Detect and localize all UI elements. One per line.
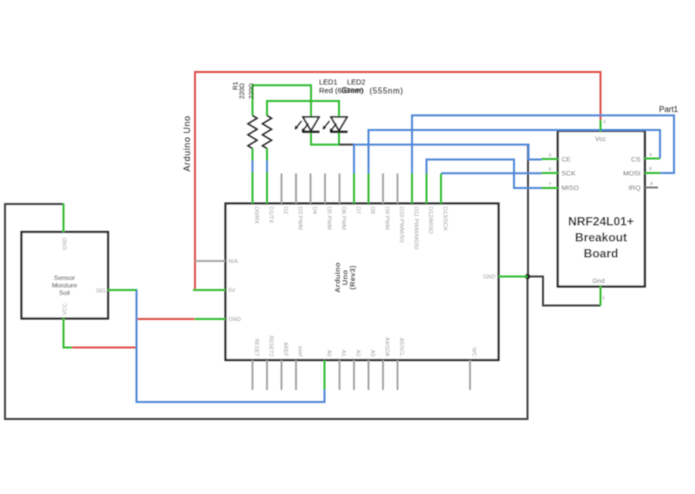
Arduino pin D2 (282, 174, 289, 215)
wire: R2 blue segment to D1 (266, 161, 268, 173)
wire: D0 pin stub green (252, 172, 254, 204)
resistor R2 220 ohm (262, 116, 271, 149)
svg-text:D13/SCK: D13/SCK (442, 207, 448, 232)
wire: D13 to NRF SCK (blue) (441, 172, 542, 174)
Arduino pin D12/MISO (427, 174, 434, 235)
svg-text:D0/RX: D0/RX (253, 207, 259, 224)
node: ground junction (525, 274, 530, 279)
wire: NRF SCK pin stub (542, 172, 559, 174)
svg-text:Breakout: Breakout (575, 231, 627, 245)
Arduino pin N/C (470, 347, 477, 390)
svg-text:D7: D7 (355, 207, 361, 215)
wire: sensor GND stub up (63, 204, 65, 233)
wire: D11 to NRF MOSI (blue) (412, 115, 674, 174)
wire: ground link junction to NRF Gnd (528, 277, 601, 306)
soil moisture sensor body outline (22, 232, 109, 319)
svg-text:4: 4 (649, 152, 652, 158)
svg-text:N/A: N/A (229, 259, 239, 265)
wire: blue sensor SIG to Arduino A0 (137, 289, 325, 402)
svg-text:D12/MISO: D12/MISO (427, 207, 433, 235)
svg-text:Green: Green (342, 86, 364, 95)
wire: red link to Arduino GND pin (137, 318, 195, 320)
svg-text:GND: GND (229, 317, 241, 323)
svg-text:A1: A1 (340, 350, 346, 357)
svg-text:RESET2: RESET2 (268, 336, 274, 357)
svg-text:7: 7 (549, 182, 552, 188)
svg-text:SCK: SCK (562, 170, 576, 177)
svg-text:Soil: Soil (59, 290, 71, 297)
wire: red sensor VCC link (71, 347, 137, 349)
svg-text:Vcc: Vcc (595, 136, 606, 143)
svg-text:VCC: VCC (63, 303, 69, 315)
Arduino pin A2 (354, 350, 361, 390)
Arduino pin A5/SCL (398, 338, 405, 390)
svg-text:GND: GND (63, 238, 69, 250)
wire: sensor VCC stub down (64, 318, 73, 348)
Arduino pin ioref (296, 346, 303, 390)
wire: Arduino 5V pin stub (193, 289, 226, 291)
svg-text:MISO: MISO (562, 185, 579, 192)
wire: R1 top lead to LED1 anode (253, 85, 312, 117)
NRF24L01+ breakout board body (568, 215, 634, 261)
svg-text:D6 PWM: D6 PWM (340, 207, 346, 231)
Arduino pin RESET (253, 339, 260, 390)
svg-text:D5 PWM: D5 PWM (326, 207, 332, 231)
svg-text:6: 6 (649, 166, 652, 172)
svg-text:(Rev3): (Rev3) (348, 265, 357, 290)
wire: R1 bottom lead green (252, 149, 254, 162)
wire: NRF MISO pin stub (542, 187, 559, 189)
svg-text:3: 3 (549, 153, 552, 159)
svg-text:D3 PWM: D3 PWM (297, 207, 303, 231)
wire: D12 to NRF MISO (blue) (427, 160, 542, 189)
wire: D7 to NRF CE (blue) (354, 145, 542, 174)
svg-text:220Ω: 220Ω (239, 83, 246, 99)
Arduino pin D3 PWM (296, 174, 303, 231)
wire: sensor SIG stub right (108, 289, 137, 291)
svg-text:CS: CS (631, 156, 641, 163)
Arduino pin RESET2 (267, 336, 274, 390)
svg-text:D8: D8 (369, 207, 375, 215)
wire: R2 bottom lead green (266, 149, 268, 162)
svg-text:D10 PWM/SS: D10 PWM/SS (398, 207, 404, 243)
svg-text:N/C: N/C (471, 347, 477, 356)
svg-text:8: 8 (650, 181, 653, 187)
wire: NRF IRQ pin stub (unconnected) (645, 187, 659, 189)
wire: D8 to NRF CS (blue) (369, 130, 661, 174)
svg-text:A3: A3 (369, 350, 375, 357)
Arduino pin D4 (311, 174, 318, 215)
wire: R2 top lead to LED2 anode (267, 101, 339, 117)
svg-text:A2: A2 (355, 350, 361, 357)
soil moisture sensor module (52, 275, 78, 297)
svg-text:D11 PWM/MOSI: D11 PWM/MOSI (413, 207, 419, 250)
wire: Arduino right GND pin stub to junction (499, 276, 528, 278)
wire: black riser from CE corner down to ground junction (527, 145, 529, 277)
wire: Arduino left GND pin stub (195, 318, 226, 320)
Arduino pin D9 PWM (383, 174, 390, 231)
Arduino pin D6 PWM (340, 174, 347, 231)
svg-text:IRQ: IRQ (628, 185, 640, 192)
Arduino pin A0 (326, 350, 332, 357)
Arduino pin D1/TX (268, 207, 274, 224)
wire: R1 blue segment to D0 (252, 161, 254, 173)
wire: black link LED2 cathode to D7 net (339, 144, 354, 146)
svg-text:(555nm): (555nm) (370, 86, 404, 95)
wire: LED1 cathode down (311, 132, 339, 145)
Arduino pin D11 PWM/MOSI (412, 174, 419, 250)
wire: NRF Gnd pin stub (600, 286, 602, 306)
svg-text:5: 5 (549, 167, 552, 173)
wire: D1 pin stub green (266, 172, 268, 204)
svg-text:A0: A0 (326, 350, 332, 357)
svg-text:Board: Board (584, 247, 619, 261)
Arduino pin D5 PWM (325, 174, 332, 231)
wire: red 5V net (Arduino 5V up, across top, down to NRF Vcc) (195, 72, 601, 290)
Arduino pin A4/SDA (383, 337, 390, 390)
Arduino pin D10 PWM/SS (398, 174, 405, 243)
svg-text:AREF: AREF (282, 342, 288, 357)
svg-text:D2: D2 (282, 207, 288, 215)
svg-text:MOSI: MOSI (623, 170, 640, 177)
Arduino pin A1 (340, 350, 347, 390)
svg-text:Gnd: Gnd (592, 278, 605, 285)
svg-text:GND: GND (483, 275, 495, 281)
svg-text:A4/SDA: A4/SDA (384, 337, 390, 357)
svg-text:5V: 5V (229, 288, 236, 294)
svg-text:Arduino Uno: Arduino Uno (182, 115, 192, 171)
svg-text:Sensor: Sensor (54, 275, 76, 282)
wire: NRF Vcc pin stub (600, 120, 602, 132)
svg-text:2: 2 (603, 119, 606, 125)
svg-text:D1/TX: D1/TX (268, 207, 274, 224)
LED LED1 (red 633nm) (295, 117, 320, 132)
svg-text:220Ω: 220Ω (249, 83, 256, 99)
LED LED2 (green 555nm) (323, 117, 348, 132)
wire: Arduino A0 pin stub (324, 360, 326, 390)
svg-text:1: 1 (602, 295, 605, 301)
Arduino pin D8 (369, 174, 376, 215)
wire: NRF CE pin stub (542, 158, 559, 160)
Arduino pin D0/RX (253, 207, 259, 224)
Arduino Uno (Rev3) body (333, 262, 357, 293)
svg-text:A5/SCL: A5/SCL (398, 338, 404, 357)
Arduino pin AREF (282, 342, 289, 390)
wire: LED2 cathode down (338, 132, 340, 145)
svg-text:D9 PWM: D9 PWM (384, 207, 390, 231)
wire: ground outer loop (sensor GND to bottom rail) (5, 204, 528, 419)
Arduino pin D13/SCK (441, 174, 448, 232)
svg-text:SIG: SIG (96, 288, 106, 294)
svg-text:ioref: ioref (297, 346, 303, 357)
svg-text:Part1: Part1 (659, 105, 679, 114)
Arduino pin N/A (left) (195, 259, 238, 265)
Arduino Uno body outline (226, 204, 499, 361)
svg-text:NRF24L01+: NRF24L01+ (568, 215, 634, 229)
NRF24L01+ breakout body outline (558, 131, 645, 287)
Arduino pin D7 (354, 174, 361, 215)
svg-text:Moisture: Moisture (52, 283, 78, 290)
svg-text:D4: D4 (311, 207, 317, 215)
Arduino pin A3 (369, 350, 376, 390)
wire: NRF CS pin stub (645, 158, 661, 160)
svg-text:CE: CE (562, 156, 572, 163)
resistor R1 220 ohm (248, 116, 257, 149)
svg-text:RESET: RESET (253, 339, 259, 358)
wire: NRF MOSI pin stub (645, 172, 661, 174)
